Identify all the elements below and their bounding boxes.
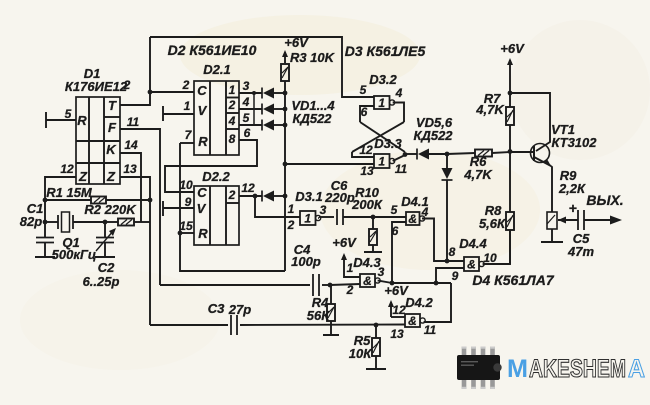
svg-text:4: 4 bbox=[395, 86, 403, 100]
svg-text:2: 2 bbox=[182, 78, 190, 92]
svg-text:D2.1: D2.1 bbox=[203, 62, 230, 77]
svg-text:11: 11 bbox=[127, 115, 140, 129]
svg-text:5: 5 bbox=[391, 203, 398, 217]
svg-text:K: K bbox=[106, 142, 117, 157]
svg-text:10: 10 bbox=[483, 251, 497, 265]
svg-text:9: 9 bbox=[185, 195, 192, 209]
svg-text:D4.4: D4.4 bbox=[459, 236, 487, 251]
svg-text:R1 15M: R1 15M bbox=[46, 185, 93, 200]
svg-text:3: 3 bbox=[243, 79, 250, 93]
svg-text:10: 10 bbox=[179, 178, 193, 192]
svg-text:&: & bbox=[408, 314, 417, 328]
svg-text:M: M bbox=[507, 355, 528, 383]
svg-text:1: 1 bbox=[378, 96, 385, 110]
svg-text:+6V: +6V bbox=[284, 35, 309, 50]
svg-text:Z: Z bbox=[78, 169, 88, 184]
svg-text:8: 8 bbox=[449, 245, 456, 259]
svg-text:1: 1 bbox=[378, 155, 385, 169]
svg-text:13: 13 bbox=[123, 162, 137, 176]
svg-text:1: 1 bbox=[288, 202, 295, 216]
svg-text:4: 4 bbox=[228, 114, 236, 128]
svg-text:2: 2 bbox=[287, 218, 295, 232]
svg-text:К176ИЕ12: К176ИЕ12 bbox=[65, 79, 128, 94]
svg-text:6: 6 bbox=[361, 105, 368, 119]
svg-text:КД522: КД522 bbox=[292, 111, 332, 126]
svg-text:1: 1 bbox=[184, 99, 191, 113]
svg-text:12: 12 bbox=[392, 303, 406, 317]
svg-text:T: T bbox=[108, 98, 117, 113]
svg-text:C2: C2 bbox=[98, 260, 115, 275]
svg-text:&: & bbox=[467, 258, 476, 272]
svg-text:11: 11 bbox=[395, 162, 408, 176]
svg-text:R2 220K: R2 220K bbox=[84, 202, 137, 217]
svg-text:A: A bbox=[628, 355, 645, 383]
svg-text:12: 12 bbox=[241, 181, 255, 195]
svg-text:2: 2 bbox=[228, 98, 236, 112]
svg-text:+6V: +6V bbox=[332, 235, 357, 250]
svg-text:D4 К561ЛА7: D4 К561ЛА7 bbox=[472, 272, 554, 288]
svg-text:D2 К561ИЕ10: D2 К561ИЕ10 bbox=[168, 42, 257, 58]
svg-text:R: R bbox=[77, 113, 87, 128]
svg-text:6..25p: 6..25p bbox=[83, 274, 120, 289]
svg-text:C: C bbox=[197, 185, 207, 200]
svg-text:КД522: КД522 bbox=[413, 128, 453, 143]
svg-text:КТ3102: КТ3102 bbox=[551, 135, 597, 150]
svg-text:V: V bbox=[198, 103, 208, 118]
svg-text:200К: 200К bbox=[351, 197, 383, 212]
svg-text:13: 13 bbox=[360, 164, 374, 178]
svg-text:5: 5 bbox=[360, 83, 367, 97]
svg-text:1: 1 bbox=[304, 212, 311, 226]
svg-text:+: + bbox=[569, 200, 577, 216]
svg-text:&: & bbox=[408, 212, 417, 226]
svg-text:4,7K: 4,7K bbox=[463, 167, 493, 182]
svg-text:4,7K: 4,7K bbox=[475, 102, 505, 117]
svg-text:D3.3: D3.3 bbox=[374, 136, 402, 151]
svg-text:6: 6 bbox=[244, 126, 251, 140]
svg-text:3: 3 bbox=[378, 265, 385, 279]
svg-text:R: R bbox=[198, 134, 208, 149]
svg-text:27p: 27p bbox=[228, 302, 251, 317]
svg-text:100p: 100p bbox=[291, 254, 321, 269]
svg-text:82p: 82p bbox=[20, 214, 42, 229]
svg-text:C3: C3 bbox=[208, 301, 225, 316]
svg-text:D2.2: D2.2 bbox=[202, 169, 230, 184]
svg-text:3: 3 bbox=[320, 203, 327, 217]
svg-text:R: R bbox=[198, 226, 208, 241]
svg-text:5: 5 bbox=[243, 111, 250, 125]
svg-text:+6V: +6V bbox=[500, 41, 525, 56]
svg-text:500кГц: 500кГц bbox=[52, 247, 97, 262]
svg-text:1: 1 bbox=[229, 83, 236, 97]
svg-text:13: 13 bbox=[390, 327, 404, 341]
svg-text:11: 11 bbox=[424, 323, 437, 337]
svg-text:15: 15 bbox=[179, 219, 193, 233]
svg-text:5,6К: 5,6К bbox=[479, 216, 506, 231]
svg-text:220p: 220p bbox=[324, 190, 355, 205]
svg-text:12: 12 bbox=[60, 162, 74, 176]
svg-text:C: C bbox=[197, 83, 207, 98]
svg-text:5: 5 bbox=[65, 107, 72, 121]
svg-text:V: V bbox=[197, 201, 207, 216]
svg-text:10К: 10К bbox=[349, 346, 372, 361]
svg-text:47m: 47m bbox=[567, 244, 594, 259]
svg-text:R3 10K: R3 10K bbox=[290, 50, 336, 65]
svg-text:2,2К: 2,2К bbox=[558, 181, 586, 196]
svg-text:ВЫХ.: ВЫХ. bbox=[586, 192, 623, 208]
svg-text:56К: 56К bbox=[307, 308, 330, 323]
svg-text:2: 2 bbox=[123, 78, 131, 92]
svg-text:9: 9 bbox=[452, 269, 459, 283]
svg-text:D3 К561ЛЕ5: D3 К561ЛЕ5 bbox=[345, 43, 426, 59]
svg-text:4: 4 bbox=[421, 205, 429, 219]
svg-text:F: F bbox=[108, 120, 117, 135]
svg-text:2: 2 bbox=[228, 188, 236, 202]
svg-text:D3.1: D3.1 bbox=[295, 189, 322, 204]
svg-text:12: 12 bbox=[359, 143, 373, 157]
svg-text:4: 4 bbox=[242, 95, 250, 109]
svg-text:Z: Z bbox=[106, 169, 116, 184]
svg-text:D4.2: D4.2 bbox=[405, 295, 433, 310]
svg-text:14: 14 bbox=[124, 138, 138, 152]
svg-text:8: 8 bbox=[229, 132, 236, 146]
svg-text:AKESHEM: AKESHEM bbox=[529, 355, 626, 383]
svg-text:D3.2: D3.2 bbox=[369, 72, 397, 87]
svg-text:&: & bbox=[363, 274, 372, 288]
